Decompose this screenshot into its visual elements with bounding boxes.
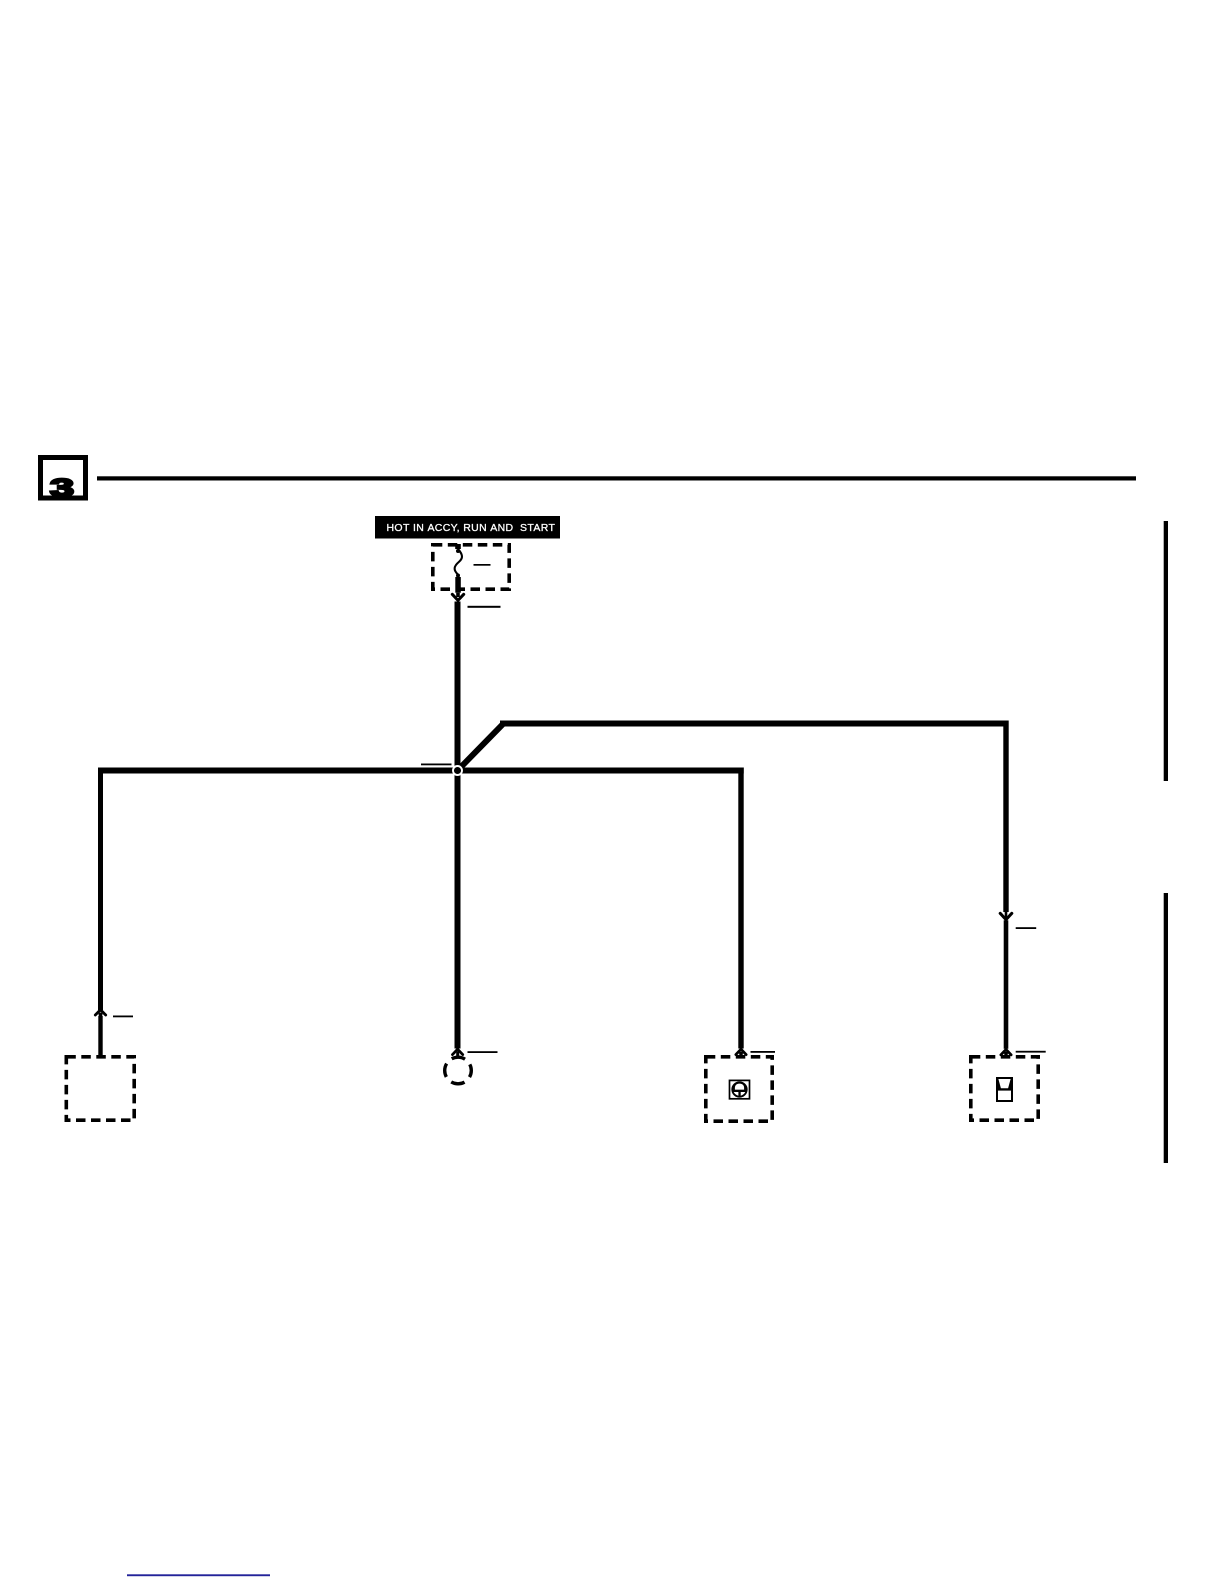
- footer link line (blue): [127, 1574, 270, 1576]
- wire: main vertical from fuse to junction: [455, 602, 461, 774]
- connector knob far-right bottom: [1004, 1052, 1008, 1056]
- fuse element: squiggle: [455, 549, 462, 575]
- wire: far right vertical upper (x=1006): [1003, 721, 1008, 913]
- page number box "3": [41, 458, 86, 503]
- wire: mid-right vertical (x=741): [738, 768, 743, 1049]
- splice label line (left of junction): [421, 764, 452, 766]
- wire: left horizontal from junction: [98, 768, 458, 774]
- component box left (dashed): [66, 1057, 134, 1120]
- svg-text:HOT IN ACCY, RUN AND START: HOT IN ACCY, RUN AND START: [387, 522, 556, 534]
- label line: mid-right pin: [751, 1051, 776, 1053]
- wire: right horizontal from junction to corner: [457, 768, 744, 774]
- fuse element: bottom knob: [456, 574, 460, 578]
- splice circle (dashed): [445, 1057, 472, 1084]
- svg-text:3: 3: [50, 475, 74, 503]
- wire: left lead into box: [98, 1016, 102, 1056]
- fuse element: entry stub: [455, 544, 461, 549]
- connector chevron mid-right bottom (points up): [736, 1049, 746, 1054]
- right margin bar (lower): [1164, 893, 1168, 1163]
- component box mid-right (dashed): [706, 1057, 772, 1121]
- connector chevron below fuse (points down): [452, 594, 463, 600]
- label line: left pin: [113, 1016, 133, 1018]
- fuse element: top knob: [456, 549, 460, 553]
- wire: left vertical (x=100.5): [98, 768, 103, 1011]
- connector chevron left bottom (points up): [95, 1010, 105, 1015]
- connector knob left bottom: [99, 1013, 103, 1017]
- header rule: [97, 476, 1136, 480]
- label line: middle pin: [468, 1051, 498, 1053]
- connector chevron middle bottom (points up): [453, 1049, 463, 1054]
- label: HOT IN ACCY, RUN AND START: [375, 516, 560, 539]
- fuse box (dashed): [433, 545, 509, 589]
- label line: far right mid wire name: [1016, 927, 1036, 929]
- right margin bar (upper): [1164, 521, 1168, 781]
- icon: steering wheel (inside mid-right box): [730, 1080, 750, 1098]
- connector stub into mid-right box: [740, 1054, 743, 1059]
- connector pin at far-right mid: [1005, 912, 1008, 919]
- connector knob mid-right bottom: [739, 1052, 743, 1056]
- label line: far right bottom pin: [1016, 1051, 1046, 1053]
- connector stub into far-right box: [1005, 1054, 1008, 1059]
- connector knob middle bottom: [456, 1052, 459, 1059]
- wire: middle vertical from junction down: [455, 770, 461, 1049]
- connector chevron far-right mid (points down): [1000, 913, 1012, 919]
- wire: top horizontal to far right: [500, 721, 1009, 727]
- fuse exit pin: [456, 593, 460, 597]
- wire: far right vertical lower segment: [1004, 920, 1009, 1049]
- wire: diagonal from junction up-right: [455, 721, 505, 772]
- icon: lighter (inside far-right box): [997, 1078, 1012, 1101]
- connector chevron far-right bottom (points up): [1001, 1049, 1011, 1054]
- component box far-right (dashed): [971, 1057, 1038, 1120]
- label line: fuse value (inside box): [474, 564, 491, 566]
- junction node (solder dot with white ring): [453, 766, 462, 775]
- label line: wire name below fuse: [468, 606, 501, 608]
- fuse exit stub: [455, 577, 461, 593]
